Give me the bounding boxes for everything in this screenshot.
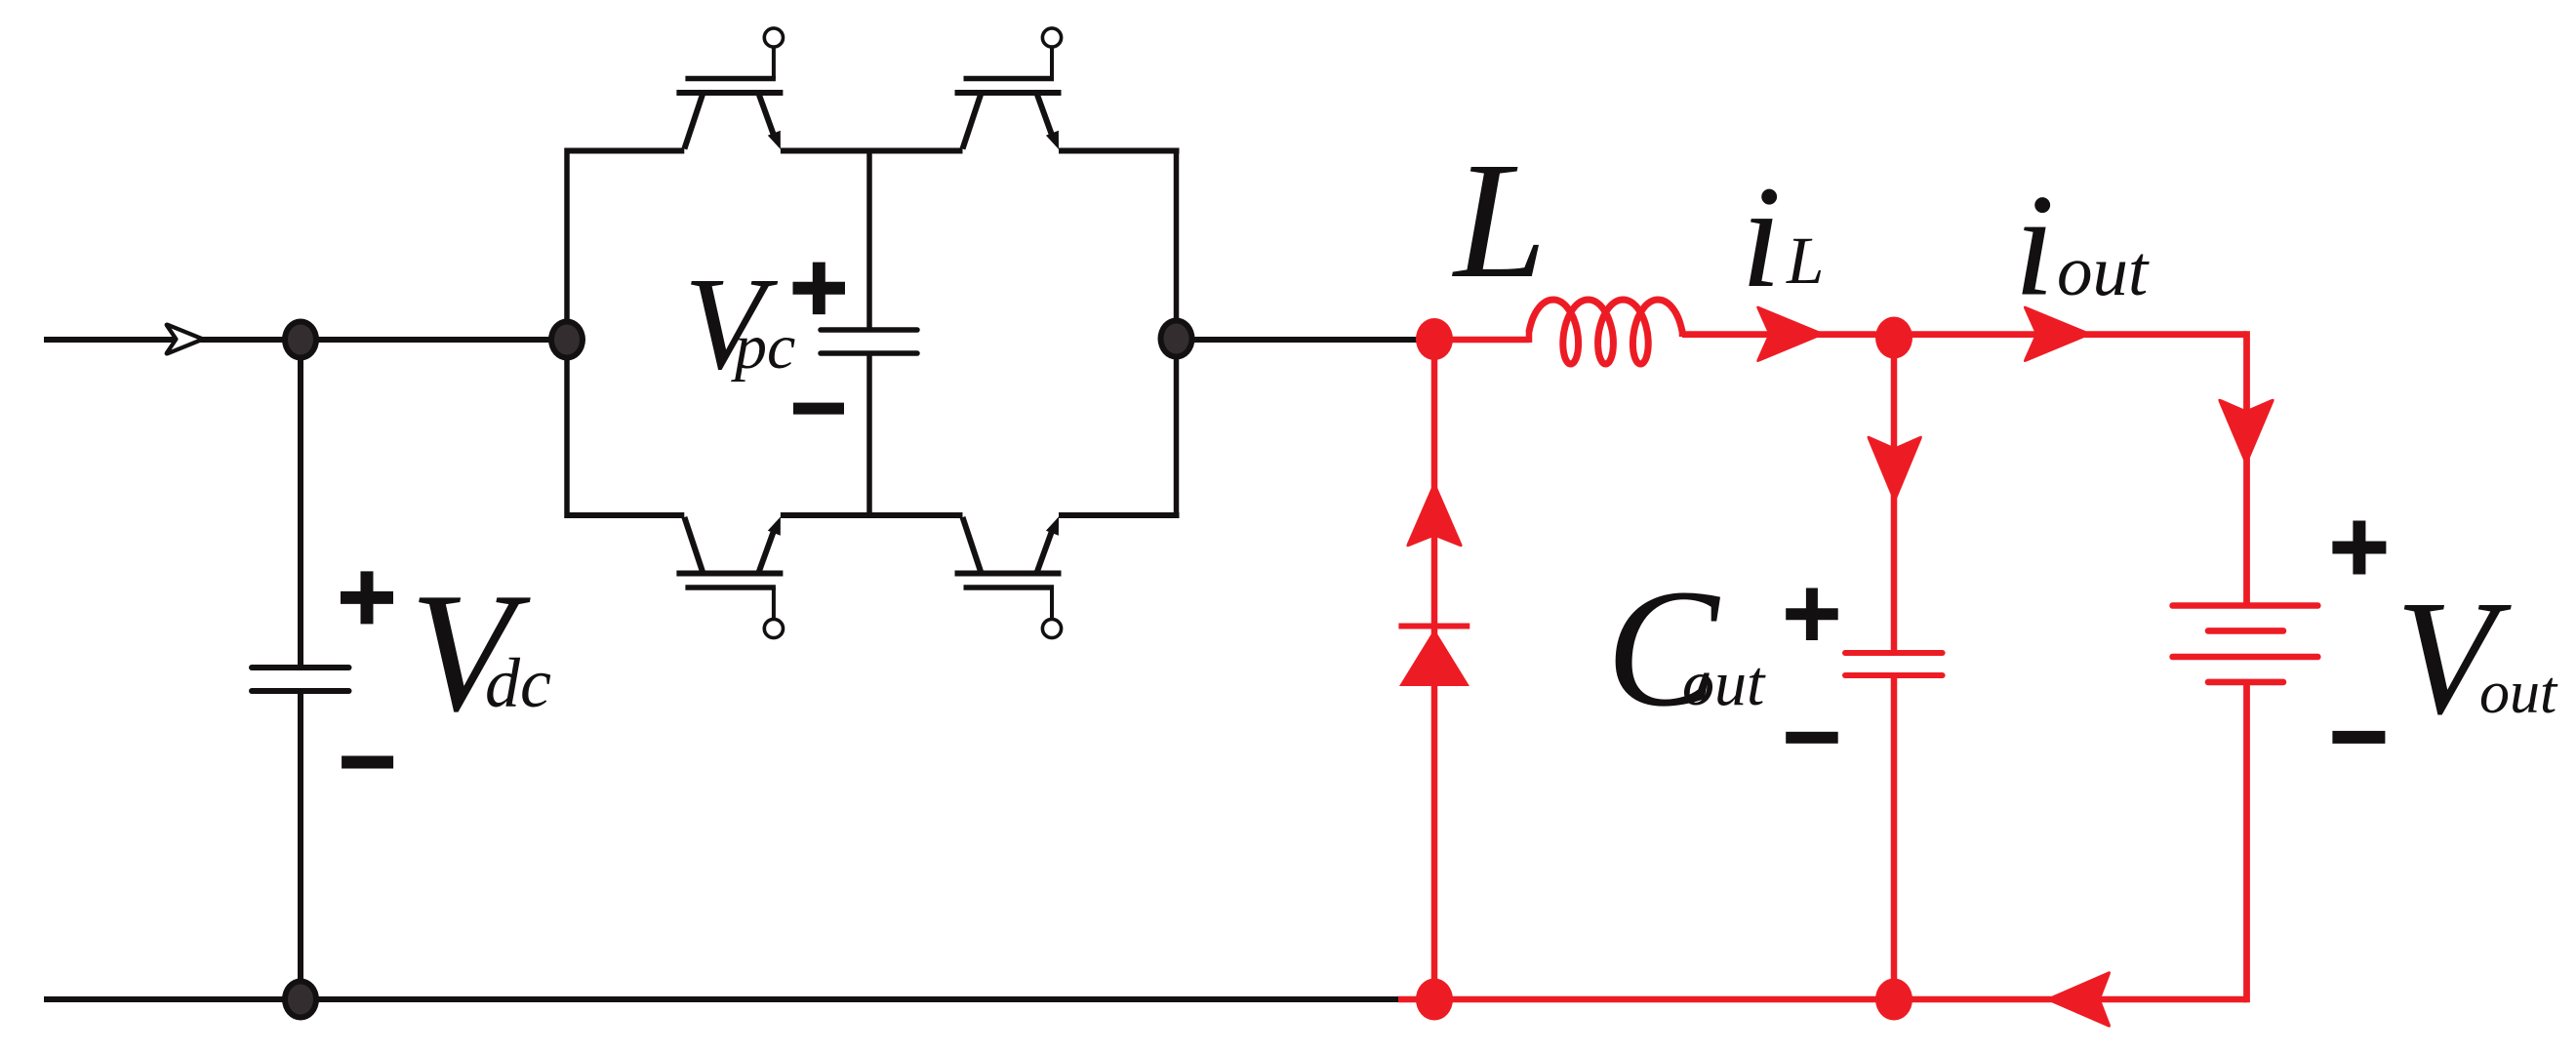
wire: Vpc branch lower segment: [866, 353, 872, 515]
wire: Vdc branch lower segment: [298, 691, 303, 999]
wire: red stub from node to inductor: [1434, 337, 1529, 344]
wire: Vdc branch upper segment: [298, 340, 303, 668]
svg-text:out: out: [1682, 648, 1766, 719]
svg-text:out: out: [2479, 660, 2558, 726]
current arrow (left) on bottom return wire: [2044, 971, 2111, 1027]
wire: diode branch vertical: [1431, 340, 1438, 999]
node B: bottom node below Vdc: [282, 979, 319, 1021]
svg-text:out: out: [2057, 231, 2150, 310]
current arrow (up) on diode branch: [1406, 481, 1462, 547]
wire: right branch vertical upper (to battery): [2243, 331, 2250, 605]
transistor Q4 bottom-right (IGBT): [955, 517, 1062, 638]
input arrow (open chevron) on input wire: [167, 325, 203, 354]
transistor Q2 top-right (IGBT): [955, 28, 1062, 149]
wire: bottom rail segment 2: [781, 512, 963, 518]
wire: bridge right vertical: [1174, 148, 1180, 519]
wire: Vpc branch upper segment: [866, 151, 872, 331]
wire: right branch vertical lower: [2243, 682, 2250, 1002]
wire: bottom rail segment 3: [1059, 512, 1180, 518]
label: - sign of Vdc: [342, 756, 393, 769]
wire: inductor right step: [1679, 329, 1686, 337]
transistor Q3 bottom-left (IGBT): [676, 517, 783, 638]
label: + sign of Cout: [1786, 588, 1838, 641]
node C: left bridge node: [548, 319, 585, 361]
node E: red junction node at inductor input: [1416, 318, 1453, 360]
svg-text:i: i: [1741, 156, 1782, 318]
wire: inductor left step: [1526, 330, 1533, 343]
node D: right bridge node: [1158, 318, 1195, 360]
transistor Q1 top-left (IGBT): [676, 28, 783, 149]
wire: bottom rail segment 1: [565, 512, 685, 518]
label: + sign of Vout: [2332, 521, 2386, 575]
label: - sign of Vout: [2332, 731, 2385, 744]
wire: bottom return line (red part): [1398, 996, 2247, 1003]
node G: red bottom node at diode branch: [1416, 979, 1453, 1021]
svg-text:L: L: [1452, 128, 1547, 312]
svg-text:pc: pc: [731, 311, 795, 383]
wire: top rail segment 2: [781, 148, 963, 154]
wire: red top wire from inductor to right corner: [1682, 331, 2247, 338]
label: + sign of Vpc: [793, 263, 846, 315]
wire: bottom return line (black part): [44, 996, 1398, 1002]
node H: red bottom node at Cout branch: [1875, 979, 1912, 1021]
wire: Cout branch lower segment: [1891, 675, 1898, 999]
svg-text:i: i: [2014, 165, 2055, 327]
wire: bridge left vertical: [564, 148, 570, 519]
node A: input node above Vdc: [282, 319, 319, 361]
wire: top rail segment 1: [565, 148, 685, 154]
capacitor Vpc: [821, 330, 917, 353]
current arrow (down) on Cout branch: [1868, 436, 1922, 505]
wire: output wire from bridge to red node: [1177, 337, 1418, 343]
battery Vout (4 plates): [2173, 606, 2318, 682]
wire: Cout branch upper segment: [1891, 335, 1898, 653]
capacitor Vdc: [252, 668, 349, 691]
label: + sign of Vdc: [341, 571, 393, 624]
capacitor Cout: [1845, 653, 1943, 675]
svg-text:L: L: [1786, 223, 1824, 298]
label: - sign of Vpc: [793, 403, 844, 415]
diode D (freewheeling, pointing up): [1398, 627, 1469, 687]
wire: top rail segment 3: [1059, 148, 1180, 154]
label: - sign of Cout: [1786, 732, 1838, 744]
wire: main input line (left): [44, 337, 567, 343]
current arrow iL on top wire: [1756, 306, 1826, 362]
inductor L (coil): [1529, 300, 1682, 364]
node F: red node at Cout junction (top): [1875, 317, 1912, 359]
current arrow (down) on right branch: [2218, 399, 2274, 467]
current arrow iout on top wire: [2024, 306, 2093, 362]
svg-text:dc: dc: [485, 644, 551, 722]
